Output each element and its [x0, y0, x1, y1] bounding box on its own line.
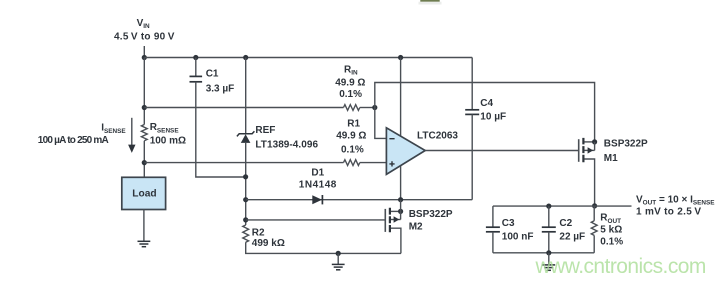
wire second rail [144, 107, 343, 109]
op-amp U1 LTC2063 [386, 128, 425, 175]
diode D1 1N4148 [312, 195, 322, 204]
node RIN right [372, 105, 377, 110]
svg-text:RIN: RIN [344, 64, 358, 76]
resistor RSENSE [141, 125, 147, 141]
svg-text:4.5 V to 90 V: 4.5 V to 90 V [114, 32, 175, 43]
svg-text:REF: REF [255, 125, 275, 136]
capacitor C3 [492, 206, 494, 227]
svg-text:C4: C4 [480, 98, 493, 109]
svg-text:0.1%: 0.1% [341, 144, 364, 155]
wire load to ground [143, 210, 145, 242]
wire R2 bottom rail [246, 242, 401, 253]
svg-text:LTC2063: LTC2063 [417, 131, 458, 142]
svg-text:C2: C2 [559, 218, 572, 229]
node REF bottom [243, 174, 248, 179]
node sense bottom [142, 160, 147, 165]
reference branch: node on top rail [243, 55, 248, 60]
svg-text:M2: M2 [409, 221, 423, 232]
node D1 left [243, 197, 248, 202]
svg-text:0.1%: 0.1% [339, 89, 362, 100]
svg-text:VOUT = 10 × ISENSE: VOUT = 10 × ISENSE [636, 194, 715, 206]
wire output stub [595, 205, 632, 207]
svg-text:BSP322P: BSP322P [604, 138, 648, 149]
node mid ground [336, 251, 341, 256]
wire top VIN rail [144, 57, 472, 59]
svg-text:D1: D1 [311, 167, 324, 178]
resistor RIN [344, 105, 360, 111]
svg-text:RSENSE: RSENSE [150, 122, 180, 134]
wire RIN node up to M1 source rail [375, 83, 595, 142]
svg-text:499 kΩ: 499 kΩ [252, 238, 285, 249]
wire REF vertical lower [245, 143, 247, 225]
wire RSENSE bottom to load [143, 141, 145, 178]
svg-text:1N4148: 1N4148 [299, 180, 337, 191]
zener REF LT1389 [237, 131, 255, 136]
capacitor C2 [548, 206, 550, 227]
node V- junction [398, 197, 403, 202]
op-amp V+ supply wire [398, 55, 403, 60]
svg-text:100 µA to 250 mA: 100 µA to 250 mA [38, 135, 109, 146]
svg-text:49.9 Ω: 49.9 Ω [336, 130, 366, 141]
svg-text:Load: Load [132, 189, 156, 200]
wire REF vertical upper [245, 58, 247, 134]
ground right [548, 253, 550, 265]
wire output filter top [493, 205, 595, 207]
svg-text:R1: R1 [347, 119, 360, 130]
transistor M1 BSP322P [578, 139, 580, 162]
node M2 gate tap [243, 217, 248, 222]
resistor R2 [243, 225, 249, 242]
top edge green strip artifact [420, 0, 439, 2]
capacitor C1 [190, 75, 203, 77]
svg-text:ROUT: ROUT [600, 213, 621, 225]
svg-text:100 mΩ: 100 mΩ [150, 135, 186, 146]
op-amp V- supply wire [400, 165, 402, 200]
svg-text:www.cntronics.com: www.cntronics.com [535, 255, 706, 278]
node C2 top [546, 204, 551, 209]
svg-text:C3: C3 [502, 218, 515, 229]
wire output filter bottom [493, 252, 594, 254]
node C2 bottom [546, 250, 551, 255]
svg-text:ISENSE: ISENSE [101, 123, 126, 135]
wire noninverting input line [144, 162, 343, 164]
svg-text:C1: C1 [206, 69, 219, 80]
svg-text:5 kΩ: 5 kΩ [600, 225, 622, 236]
node second rail left [142, 105, 147, 110]
wire op-amp output [425, 150, 578, 152]
resistor ROUT [593, 206, 595, 221]
svg-text:100 nF: 100 nF [502, 232, 534, 243]
capacitor C4 branch [471, 58, 473, 110]
svg-text:22 µF: 22 µF [559, 232, 585, 243]
arrow ISENSE current [131, 118, 133, 146]
resistor R1 [344, 160, 360, 166]
svg-text:49.9 Ω: 49.9 Ω [335, 77, 365, 88]
capacitor C1 branch wire [193, 55, 198, 60]
load box [122, 177, 166, 209]
svg-text:VIN: VIN [137, 18, 150, 30]
svg-text:R2: R2 [252, 227, 265, 238]
wire V_IN stub [143, 46, 145, 58]
node output [592, 203, 597, 208]
svg-text:1 mV to 2.5 V: 1 mV to 2.5 V [636, 207, 701, 218]
transistor M2 BSP322P [246, 219, 385, 221]
ground under load [143, 240, 145, 242]
wire left rail upper [143, 58, 145, 125]
wire RIN node down to minus input [375, 108, 387, 139]
svg-text:3.3 µF: 3.3 µF [206, 84, 235, 95]
svg-text:0.1%: 0.1% [600, 237, 623, 248]
svg-text:BSP322P: BSP322P [409, 209, 453, 220]
wire D1 line [246, 199, 473, 201]
svg-text:LT1389-4.096: LT1389-4.096 [255, 140, 318, 151]
ground mid [337, 253, 339, 264]
svg-text:10 µF: 10 µF [480, 111, 506, 122]
node VIN top rail junction [142, 55, 147, 60]
svg-text:M1: M1 [604, 153, 618, 164]
